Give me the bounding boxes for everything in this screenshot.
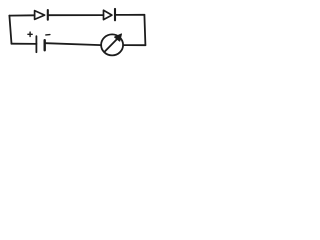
wire left edge <box>9 16 11 44</box>
wire bottom-left segment <box>12 43 37 45</box>
wire battery to meter <box>46 43 101 45</box>
wire top-middle segment <box>48 14 104 16</box>
diode D2 <box>104 9 116 20</box>
meter M1 <box>101 34 123 55</box>
plus label <box>28 32 32 36</box>
minus label <box>46 34 50 36</box>
wire right edge <box>144 15 145 45</box>
diode D1 <box>35 10 48 20</box>
wire top-right segment <box>115 14 144 16</box>
wire top-left segment <box>9 14 34 16</box>
battery B1 <box>36 36 44 52</box>
wire meter to bottom-right corner <box>123 44 145 46</box>
